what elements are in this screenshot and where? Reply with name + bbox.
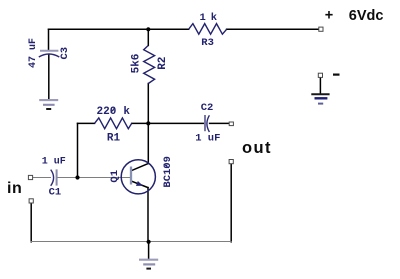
svg-text:C2: C2 bbox=[201, 102, 214, 114]
svg-text:5k6: 5k6 bbox=[131, 54, 143, 74]
svg-text:6Vdc: 6Vdc bbox=[349, 8, 384, 24]
svg-text:BC109: BC109 bbox=[162, 156, 174, 188]
svg-text:C3: C3 bbox=[59, 47, 71, 60]
svg-text:+: + bbox=[325, 7, 333, 23]
svg-text:R2: R2 bbox=[157, 57, 169, 70]
svg-text:k: k bbox=[123, 106, 130, 118]
svg-text:47 uF: 47 uF bbox=[28, 38, 39, 68]
svg-text:R1: R1 bbox=[107, 132, 121, 144]
svg-text:k: k bbox=[211, 12, 217, 24]
svg-text:Q1: Q1 bbox=[109, 170, 121, 183]
svg-text:R3: R3 bbox=[201, 37, 214, 49]
svg-text:out: out bbox=[242, 139, 272, 157]
svg-text:C1: C1 bbox=[49, 186, 62, 198]
svg-text:in: in bbox=[7, 180, 22, 197]
svg-text:1 uF: 1 uF bbox=[195, 132, 220, 144]
svg-text:220: 220 bbox=[97, 106, 117, 118]
svg-text:1 uF: 1 uF bbox=[42, 156, 66, 167]
svg-text:1: 1 bbox=[200, 12, 206, 24]
